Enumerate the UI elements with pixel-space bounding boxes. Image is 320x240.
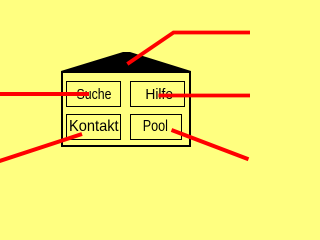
svg-text:Pool: Pool xyxy=(143,118,168,135)
svg-text:Kontakt: Kontakt xyxy=(69,118,119,135)
